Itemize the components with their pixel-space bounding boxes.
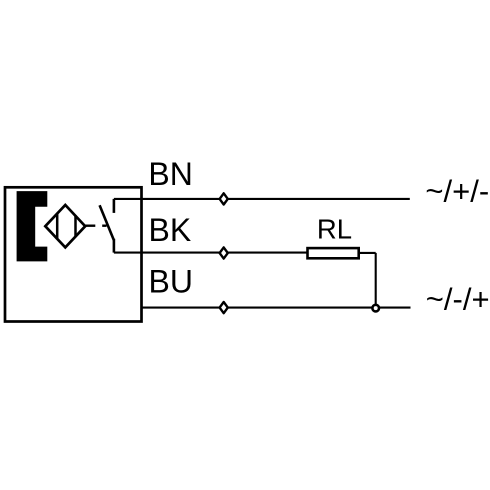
svg-text:BU: BU bbox=[149, 264, 193, 300]
svg-text:RL: RL bbox=[317, 213, 352, 244]
svg-text:~/+/-: ~/+/- bbox=[425, 174, 489, 209]
switch bottom terminal stub bbox=[113, 239, 116, 253]
sensing face bracket (filled C symbol) bbox=[17, 191, 48, 261]
terminal diamond on BU bbox=[220, 302, 228, 313]
svg-text:~/-/+: ~/-/+ bbox=[426, 282, 490, 317]
diamond left chord bbox=[56, 213, 59, 240]
actuation link dash bbox=[102, 224, 106, 226]
wire vertical drop from RL to BU bbox=[375, 253, 377, 305]
sensor enclosure box bbox=[5, 187, 142, 321]
terminal diamond on BN bbox=[220, 193, 228, 204]
resistor RL body bbox=[308, 248, 359, 258]
terminal diamond on BK bbox=[220, 247, 228, 258]
diamond right chord bbox=[74, 215, 77, 237]
proximity sensor diamond bbox=[45, 205, 85, 247]
wire BK (resistor to corner) bbox=[360, 252, 376, 254]
switch top terminal stub bbox=[113, 199, 116, 213]
wire BK (switch to resistor) bbox=[114, 252, 307, 254]
wire BU bbox=[142, 307, 411, 309]
junction node on BU bbox=[372, 305, 379, 312]
svg-text:BN: BN bbox=[148, 156, 192, 192]
switch blade (NO contact) bbox=[100, 205, 114, 240]
actuation link solid segment bbox=[85, 224, 95, 226]
svg-text:BK: BK bbox=[149, 212, 192, 248]
wire BN bbox=[114, 198, 410, 200]
